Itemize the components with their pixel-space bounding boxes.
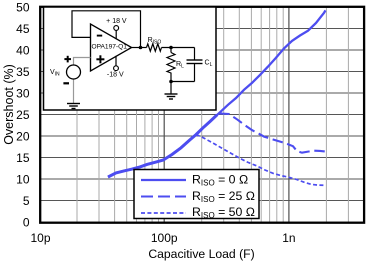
legend sample dotted	[141, 212, 186, 214]
wire bundle underlay (overlapping curves)	[108, 115, 217, 177]
node dot RL bottom	[169, 80, 173, 84]
horizontal gridlines	[40, 29, 365, 201]
VIN source wires (gray)	[74, 58, 91, 104]
legend box	[134, 170, 259, 219]
legend sample solid	[141, 179, 186, 181]
+18V terminal circle	[114, 26, 119, 31]
-18V terminal circle	[114, 66, 119, 71]
-18V supply wire	[115, 56, 117, 66]
resistor RISO zigzag	[147, 44, 162, 51]
curve RISO=50 dotted	[196, 135, 324, 186]
wire node to ground	[170, 82, 172, 95]
svg-text:5: 5	[23, 194, 30, 208]
vertical major gridlines	[164, 7, 289, 222]
svg-text:1n: 1n	[282, 231, 295, 245]
ground VIN	[67, 104, 80, 109]
svg-text:40: 40	[16, 43, 30, 57]
label VIN minus	[63, 82, 69, 84]
capacitor CL wires	[194, 48, 196, 61]
node dot output	[139, 46, 143, 50]
svg-text:+ 18 V: + 18 V	[106, 18, 127, 25]
label opamp minus	[97, 35, 102, 37]
svg-text:10p: 10p	[30, 231, 50, 245]
svg-text:10: 10	[16, 172, 30, 186]
ground right	[165, 93, 178, 95]
output wire	[132, 47, 147, 49]
svg-text:RISO = 0 Ω: RISO = 0 Ω	[192, 172, 248, 187]
plot border	[40, 7, 364, 223]
svg-text:Capacitive Load (F): Capacitive Load (F)	[148, 247, 254, 261]
legend sample dashed	[141, 195, 186, 197]
x axis tick labels	[30, 231, 295, 245]
wire to node	[162, 47, 195, 49]
svg-text:Overshoot (%): Overshoot (%)	[2, 64, 16, 145]
vertical minor gridlines	[77, 7, 348, 222]
svg-text:OPA197-Q1: OPA197-Q1	[92, 43, 128, 50]
svg-text:35: 35	[16, 65, 30, 79]
svg-text:25: 25	[16, 108, 30, 122]
inset box	[44, 7, 217, 110]
y axis tick labels	[16, 0, 30, 229]
wire VIN to ground	[73, 79, 75, 104]
svg-text:50: 50	[16, 0, 30, 14]
feedback wire	[72, 11, 141, 48]
svg-text:100p: 100p	[151, 231, 178, 245]
svg-text:45: 45	[16, 22, 30, 36]
op-amp U1 triangle	[91, 24, 132, 71]
VIN source circle	[67, 65, 81, 79]
wire RL top	[170, 48, 172, 53]
+18V supply wire	[115, 30, 117, 39]
svg-text:15: 15	[16, 151, 30, 165]
resistor RL zigzag	[167, 53, 175, 82]
svg-text:0: 0	[23, 215, 30, 229]
label opamp plus	[96, 58, 104, 60]
curve RISO=25 dashed	[219, 113, 325, 152]
svg-text:-18 V: -18 V	[107, 72, 124, 79]
capacitor CL plates	[187, 59, 203, 61]
svg-text:30: 30	[16, 86, 30, 100]
wire CL bottom to node	[171, 81, 195, 83]
inset circuit	[72, 11, 203, 99]
svg-text:20: 20	[16, 129, 30, 143]
label VIN plus	[64, 58, 71, 60]
node dot RL top	[169, 46, 173, 50]
curve RISO=0 solid	[108, 10, 326, 177]
wire VIN to +input	[74, 58, 91, 66]
